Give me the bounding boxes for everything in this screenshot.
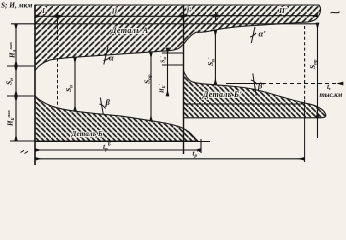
svg-text:I: I xyxy=(41,7,45,15)
svg-text:Деталь А: Деталь А xyxy=(110,26,149,35)
period tick I/II xyxy=(57,13,59,21)
small break dashes left of axis xyxy=(21,150,29,153)
svg-text:α: α xyxy=(109,53,114,63)
svg-text:α': α' xyxy=(259,28,267,38)
tick at end of period II' xyxy=(304,100,306,162)
svg-text:Деталь Б': Деталь Б' xyxy=(202,90,242,99)
separator between periods (repair point) xyxy=(183,5,185,154)
part A region (hatched, both periods) xyxy=(35,5,321,71)
y axis / left border xyxy=(34,5,36,165)
svg-text:тыс.км: тыс.км xyxy=(320,92,343,99)
period tick I'/II' xyxy=(215,12,217,20)
svg-text:β': β' xyxy=(257,81,265,91)
period dimension line I' (right) xyxy=(184,15,216,17)
period dimension line II (left) xyxy=(58,15,184,17)
dim И_Б^max (left column) xyxy=(6,96,35,141)
angle alpha marker xyxy=(104,47,115,65)
svg-text:S; И, мкм: S; И, мкм xyxy=(1,1,32,10)
svg-text:Деталь Б: Деталь Б xyxy=(71,130,104,138)
wear limit level line of part A xyxy=(11,23,318,25)
period dimension line I (left) xyxy=(35,15,58,17)
angle beta marker xyxy=(100,97,111,115)
junction dim S_н' / И_Б' xyxy=(158,48,168,96)
top right break squiggle xyxy=(331,12,340,13)
part B' region (right, hatched) xyxy=(184,71,326,118)
svg-text:β: β xyxy=(105,97,111,107)
svg-text:I': I' xyxy=(186,7,192,15)
svg-text:t,: t, xyxy=(327,82,331,91)
dim S_пр (left) xyxy=(143,52,154,121)
dim t_р^Б xyxy=(35,142,201,153)
dim И_А^max (left column) xyxy=(7,24,35,66)
tick at end of part B life xyxy=(200,139,202,153)
inner surface line of part B' xyxy=(184,103,304,105)
dim S_н (left column) xyxy=(5,66,36,96)
svg-text:II': II' xyxy=(278,7,286,15)
part B region (left, hatched) xyxy=(35,96,198,141)
dim S_п (left) xyxy=(64,57,75,111)
dim S_пр' (right) xyxy=(308,23,319,138)
angle alpha' marker xyxy=(250,27,266,43)
dashed line end of period II' xyxy=(304,26,306,100)
svg-text:II: II xyxy=(111,8,118,16)
junction cluster ticks xyxy=(162,52,184,54)
period dimension line II' (right) xyxy=(216,15,318,17)
dim t_р^А xyxy=(35,158,305,160)
angle beta' marker xyxy=(251,74,265,96)
dashed line end of running-in (left) xyxy=(57,21,59,108)
bottom border line under B band xyxy=(35,141,210,143)
dim S_п' (right) xyxy=(206,30,217,84)
time axis dashed with arrow xyxy=(226,82,343,99)
